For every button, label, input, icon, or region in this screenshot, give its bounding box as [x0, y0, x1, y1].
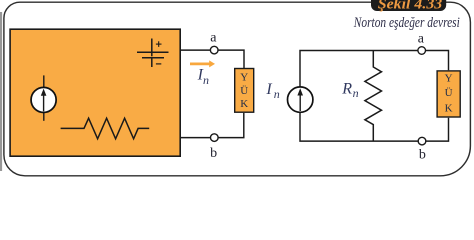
- battery minus sign: [156, 63, 161, 65]
- figure tab "Şekil 4.33": [371, 0, 446, 13]
- resistor symbol (horizontal, inside source network box): [61, 118, 150, 139]
- node b (left): [211, 134, 219, 142]
- svg-text:Ü: Ü: [445, 87, 453, 99]
- svg-text:Y: Y: [240, 72, 248, 84]
- current source In: [288, 87, 313, 112]
- battery symbol (inside source network box): [137, 39, 169, 68]
- label In (left): [197, 67, 209, 87]
- svg-text:R: R: [341, 81, 352, 98]
- load box YÜK (left): [235, 69, 254, 113]
- svg-text:I: I: [265, 81, 272, 98]
- wire: box to node a to YÜK top: [180, 50, 244, 68]
- svg-text:a: a: [210, 30, 217, 45]
- label Rn: [341, 81, 358, 100]
- resistor Rn (vertical zigzag): [365, 51, 382, 142]
- wire: box to node b to YÜK bottom: [180, 113, 244, 138]
- load box YÜK (right): [437, 71, 460, 117]
- node a (right): [418, 47, 426, 55]
- current source symbol (inside source network box): [31, 75, 56, 120]
- svg-text:n: n: [353, 86, 359, 100]
- svg-text:a: a: [418, 31, 425, 46]
- svg-text:Şekil 4.33: Şekil 4.33: [378, 0, 443, 13]
- wire loop: [300, 51, 449, 142]
- page background: [0, 0, 474, 178]
- svg-text:Y: Y: [445, 72, 453, 84]
- battery plus sign: [156, 41, 162, 47]
- svg-text:b: b: [419, 147, 426, 162]
- label In (right): [265, 81, 279, 101]
- page-edge shadow strip: [0, 12, 2, 171]
- svg-text:Ü: Ü: [240, 85, 248, 97]
- svg-text:b: b: [210, 146, 217, 161]
- svg-text:K: K: [240, 98, 248, 110]
- linear source network box (orange): [10, 29, 180, 156]
- node b (right): [418, 137, 426, 145]
- figure frame (rounded border): [4, 2, 471, 176]
- svg-text:n: n: [203, 73, 209, 87]
- svg-text:n: n: [274, 87, 280, 101]
- node a (left): [210, 46, 218, 54]
- svg-text:K: K: [445, 102, 453, 114]
- current arrow In (orange): [190, 60, 215, 67]
- svg-text:Norton eşdeğer devresi: Norton eşdeğer devresi: [353, 15, 460, 31]
